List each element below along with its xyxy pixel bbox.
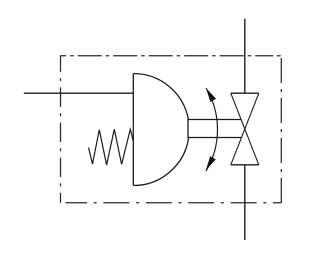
rotation arrow arc — [206, 88, 218, 171]
actuator stem (open rectangle) — [188, 120, 241, 138]
wire: valve bottom port — [244, 165, 246, 240]
enclosure top edge (dash-dot boundary) — [60, 55, 273, 57]
enclosure bottom edge (dash-dot boundary) — [65, 202, 281, 204]
valve body (bowtie): bottom seat bar — [231, 164, 259, 166]
valve body (bowtie): diagonal 1 — [231, 93, 259, 165]
diaphragm actuator body (half-disc, arc stops at stem) — [133, 74, 188, 186]
valve body (bowtie): top seat bar — [231, 92, 259, 94]
enclosure right edge (dash-dot boundary) — [280, 58, 282, 203]
wire: pilot signal input (left) — [24, 92, 134, 94]
spring — [89, 129, 134, 165]
rotation arrowhead (upper) — [206, 88, 216, 102]
enclosure top edge end dash — [277, 55, 281, 57]
valve body (bowtie): diagonal 2 — [231, 93, 259, 165]
enclosure left edge (dash-dot boundary) — [60, 56, 62, 203]
wire: valve top port — [244, 19, 246, 94]
rotation arrowhead (lower) — [206, 156, 216, 170]
